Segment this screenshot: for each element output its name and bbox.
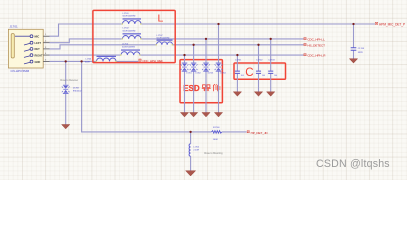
svg-text:104: 104 xyxy=(241,75,244,77)
junction dot coil xyxy=(189,131,191,133)
pin RIGHT contact xyxy=(24,56,30,58)
svg-text:CDC_HPH_R: CDC_HPH_R xyxy=(307,54,326,58)
junction dot cap3 xyxy=(270,38,272,40)
svg-text:RIGHT: RIGHT xyxy=(35,53,43,57)
net label HP_DET_JD xyxy=(247,131,249,133)
wire GND net xyxy=(50,60,139,62)
inductor L1707 xyxy=(157,40,173,41)
svg-text:CDC_HPH_L: CDC_HPH_L xyxy=(307,38,325,42)
wire LEFT net xyxy=(50,39,304,43)
svg-text:GND: GND xyxy=(35,60,41,64)
pin stub 1 xyxy=(43,35,49,37)
ground cap3 xyxy=(267,92,275,96)
tvs diode D1702 xyxy=(190,63,198,72)
junction dot GND-det run xyxy=(80,60,82,62)
connector J1701 body xyxy=(8,29,43,68)
svg-text:L1704: L1704 xyxy=(122,44,129,46)
inductor L1705 vertical xyxy=(189,144,191,156)
wire DET net xyxy=(50,45,304,49)
svg-text:Close to Receiver: Close to Receiver xyxy=(60,79,78,82)
junction dot ESD1 xyxy=(183,54,185,56)
wire RIGHT net xyxy=(50,54,304,56)
svg-text:CSDN @ltqshs: CSDN @ltqshs xyxy=(316,158,390,170)
svg-text:600R/100MHZ: 600R/100MHZ xyxy=(122,46,136,48)
wire ESD drop 1 xyxy=(184,55,186,112)
net label HS_DETECT xyxy=(304,43,306,45)
pin LEFT contact xyxy=(24,43,30,45)
inductor L1702 xyxy=(123,33,142,34)
wire cap drop 2 xyxy=(258,45,260,92)
pin DET contact xyxy=(24,50,30,52)
svg-text:2.2UH: 2.2UH xyxy=(193,149,199,151)
ground C1705 xyxy=(349,59,357,63)
wire ESD drop 2 xyxy=(193,45,195,113)
svg-text:ESD0402: ESD0402 xyxy=(73,90,82,92)
junction dot ESD2 xyxy=(192,44,194,46)
svg-text:D1704: D1704 xyxy=(220,73,225,75)
svg-text:D1702: D1702 xyxy=(195,73,200,75)
svg-text:D1708: D1708 xyxy=(73,87,80,89)
ground ESD3 xyxy=(202,113,210,117)
tvs diode D1704 xyxy=(215,63,223,72)
wire MIC net xyxy=(50,24,376,36)
svg-text:Close to Mounting: Close to Mounting xyxy=(204,152,223,155)
net label CDC_HPH_REF xyxy=(139,59,141,61)
pin stub 4 xyxy=(43,54,49,56)
pin stub 2 xyxy=(43,42,49,44)
pin MIC contact xyxy=(15,35,30,37)
svg-text:600R/100MHZ: 600R/100MHZ xyxy=(157,38,171,40)
tvs diode D1703 xyxy=(202,63,210,72)
svg-text:LEFT: LEFT xyxy=(35,41,42,45)
tvs diode D1701 xyxy=(181,63,189,72)
pin stub 5 xyxy=(43,60,49,62)
inductor L1701 xyxy=(123,18,142,19)
junction dot C1705 xyxy=(352,23,354,25)
svg-text:33PF: 33PF xyxy=(358,52,364,54)
svg-text:600R: 600R xyxy=(85,62,90,64)
ground D1708 xyxy=(62,125,70,129)
pin GND contact xyxy=(24,62,30,64)
svg-text:L1701: L1701 xyxy=(123,13,130,15)
svg-text:D1703: D1703 xyxy=(208,73,213,75)
pin stub 3 xyxy=(43,48,49,50)
svg-text:C: C xyxy=(245,67,253,79)
net label CDC_HPH_L xyxy=(304,38,306,40)
red group box L xyxy=(93,10,175,62)
wire coil drop xyxy=(190,132,192,171)
ground ESD1 xyxy=(180,113,188,117)
svg-text:D1701: D1701 xyxy=(186,73,191,75)
junction dot GND-D1708 xyxy=(65,60,67,62)
red group box ESD xyxy=(180,60,222,103)
net label CDC_HPH_R xyxy=(304,54,306,56)
svg-text:104: 104 xyxy=(274,75,277,77)
wire C1705 drop xyxy=(353,24,355,59)
ground cap1 xyxy=(233,92,241,96)
net label HPM_MIC_DET_P xyxy=(375,22,377,24)
wire ESD drop 3 xyxy=(205,39,207,113)
capacitor C1705 xyxy=(351,48,357,51)
svg-text:ESD: ESD xyxy=(183,84,200,93)
ground ESD2 xyxy=(190,113,198,117)
svg-text:HS_DETECT: HS_DETECT xyxy=(307,44,325,48)
svg-text:MIC: MIC xyxy=(35,34,40,38)
svg-text:600R/100MHZ: 600R/100MHZ xyxy=(123,16,137,18)
svg-text:100K: 100K xyxy=(213,139,219,141)
svg-text:HPM_MIC_DET_P: HPM_MIC_DET_P xyxy=(379,23,405,27)
svg-text:L1706: L1706 xyxy=(86,59,92,61)
svg-text:C1705: C1705 xyxy=(358,48,365,50)
svg-text:C1702: C1702 xyxy=(256,59,263,61)
svg-text:C1703: C1703 xyxy=(268,59,275,61)
svg-text:DET: DET xyxy=(35,47,41,51)
wire D1708 drop xyxy=(65,61,67,84)
wire ESD drop 4 xyxy=(218,24,220,113)
junction dot ESD4 xyxy=(217,23,219,25)
svg-text:R1706: R1706 xyxy=(213,127,220,129)
wire cap drop 3 xyxy=(270,39,272,92)
junction dot cap1 xyxy=(236,54,238,56)
red group box C xyxy=(234,63,286,79)
svg-text:J1701: J1701 xyxy=(10,24,19,28)
svg-text:L1705: L1705 xyxy=(193,146,199,148)
ground ESD4 xyxy=(214,113,222,117)
svg-text:HP_DET_JD: HP_DET_JD xyxy=(251,131,269,135)
inductor L1704 xyxy=(121,50,140,51)
svg-text:CDC_HPH_REF: CDC_HPH_REF xyxy=(142,59,163,63)
svg-text:600R/100MHZ: 600R/100MHZ xyxy=(123,30,137,32)
svg-text:L: L xyxy=(158,12,164,24)
ground cap2 xyxy=(254,92,262,96)
wire cap drop 1 xyxy=(236,55,238,92)
svg-text:104: 104 xyxy=(262,75,265,77)
inductor L1706 xyxy=(97,56,117,57)
svg-text:CN-HP3.5MM: CN-HP3.5MM xyxy=(11,69,30,73)
junction dot ESD3 xyxy=(205,38,207,40)
svg-text:C1701: C1701 xyxy=(235,59,242,61)
jack barrel xyxy=(11,34,14,59)
svg-text:L1702: L1702 xyxy=(123,28,130,30)
junction dot cap2 xyxy=(257,44,259,46)
ground coil xyxy=(186,171,196,176)
wire HP_DET run xyxy=(82,61,247,131)
